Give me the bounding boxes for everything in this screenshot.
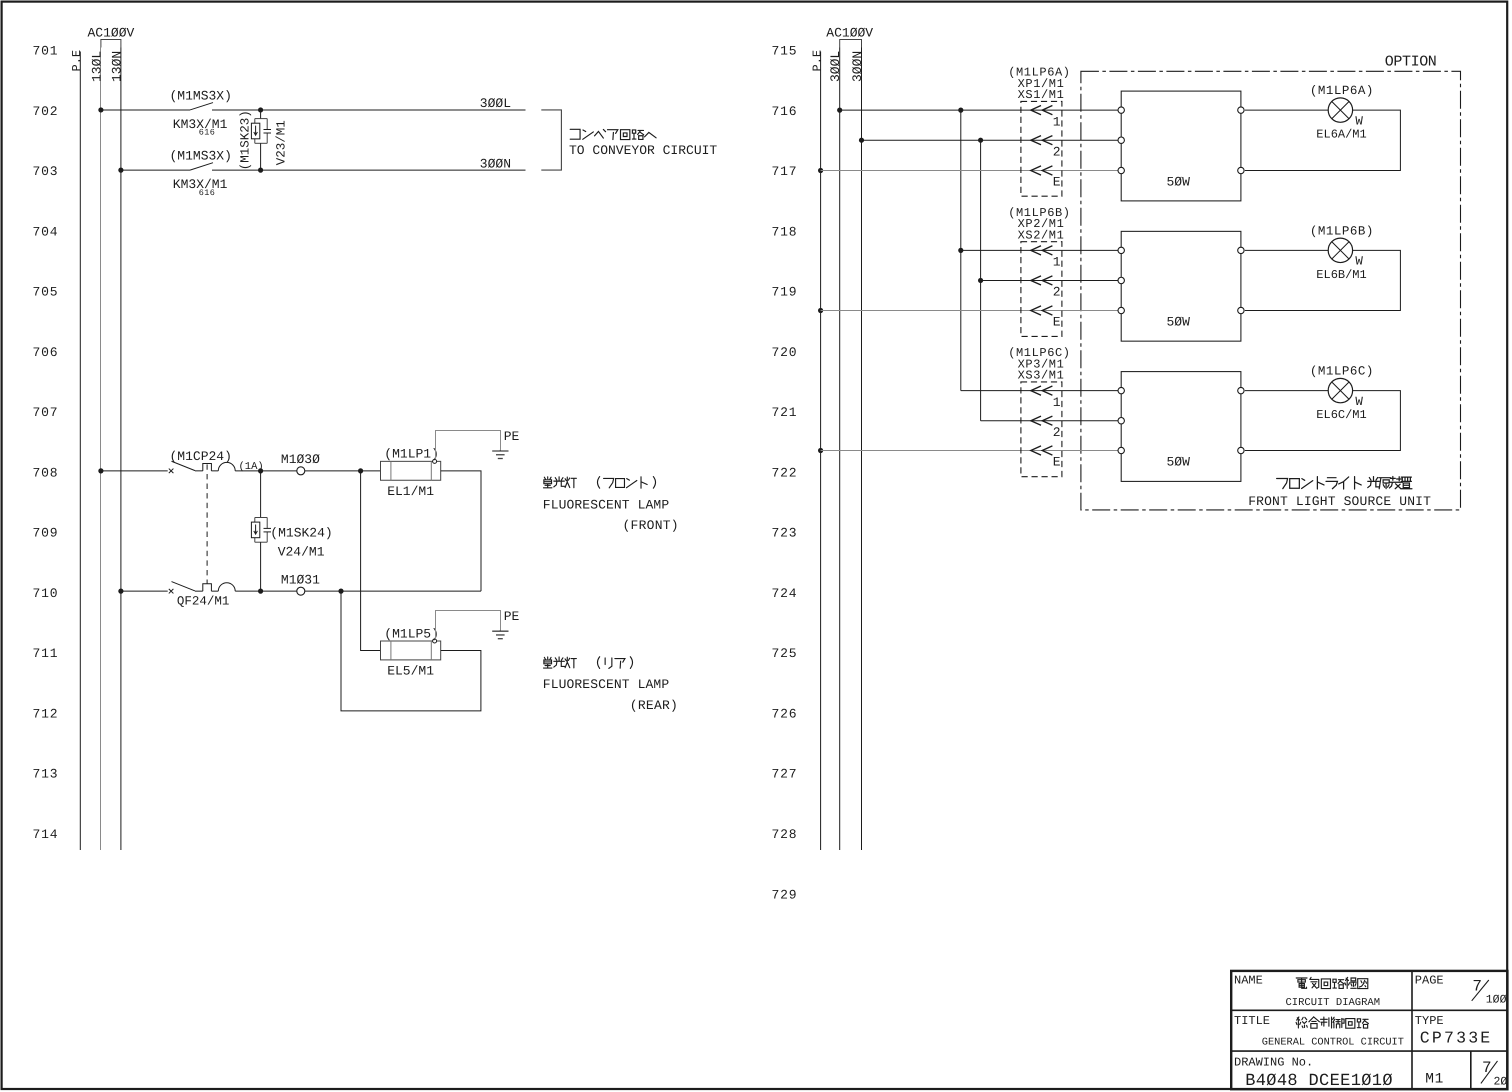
node P.E/AE (818, 168, 823, 173)
node 710/SK24 (258, 589, 263, 594)
svg-text:704: 704 (33, 224, 59, 239)
ballast unit B 50W (1121, 231, 1241, 341)
connector pin E unit B (1031, 306, 1041, 315)
svg-text:FLUORESCENT LAMP: FLUORESCENT LAMP (543, 497, 670, 512)
svg-text:QF24/M1: QF24/M1 (177, 595, 230, 609)
svg-text:OPTION: OPTION (1385, 54, 1437, 71)
svg-text:715: 715 (772, 44, 798, 59)
svg-text:(FRONT): (FRONT) (623, 518, 679, 533)
svg-text:XS3/M1: XS3/M1 (1018, 369, 1065, 383)
node 130L/702 (98, 107, 103, 112)
unit A right terminal E (1238, 167, 1244, 173)
bus bracket AC100V (R) (840, 40, 862, 48)
net 130N bus (120, 48, 122, 851)
svg-text:(REAR): (REAR) (630, 698, 678, 713)
wire unit C lineE (821, 450, 1122, 452)
lamp EL6B/M1 ((M1LP6B)) (1328, 238, 1352, 262)
unit A left terminal (1118, 167, 1124, 173)
svg-text:NAME: NAME (1234, 973, 1263, 987)
svg-text:(M1LP6B): (M1LP6B) (1310, 224, 1374, 238)
wire lamp B loop (1245, 250, 1401, 310)
net 300N bus (861, 48, 863, 851)
svg-text:720: 720 (772, 345, 798, 360)
wire unit C line2 (981, 420, 1122, 422)
svg-text:7: 7 (1482, 1059, 1492, 1077)
connector pin 1 unit B (1031, 246, 1041, 255)
svg-text:AC1ØØV: AC1ØØV (826, 26, 873, 41)
terminal M1031 (297, 587, 305, 595)
svg-text:726: 726 (772, 706, 798, 721)
svg-text:(M1MS3X): (M1MS3X) (170, 88, 232, 103)
label fluorescent rear JP (544, 657, 552, 668)
svg-text:(M1LP6C): (M1LP6C) (1310, 365, 1374, 379)
wire unit A lineE (821, 170, 1122, 172)
wire V1 branch (960, 110, 962, 391)
label title JP (1296, 1017, 1307, 1028)
wire 710 left (121, 590, 168, 592)
wire EL5 feed (361, 471, 381, 651)
svg-text:2: 2 (1053, 425, 1061, 440)
connector pin 1 unit C (1031, 386, 1041, 395)
svg-text:E: E (1053, 175, 1061, 190)
connector pin 2 unit C (1031, 416, 1041, 425)
svg-text:703: 703 (33, 164, 59, 179)
OPTION chain border (1081, 71, 1461, 510)
svg-text:(M1SK23): (M1SK23) (239, 110, 253, 170)
svg-text:GENERAL CONTROL CIRCUIT: GENERAL CONTROL CIRCUIT (1262, 1037, 1404, 1049)
svg-text:FLUORESCENT LAMP: FLUORESCENT LAMP (543, 677, 670, 692)
title block frame (1231, 971, 1507, 1089)
svg-text:716: 716 (772, 104, 798, 119)
svg-text:DRAWING No.: DRAWING No. (1234, 1056, 1313, 1070)
node 708/SK24 (258, 468, 263, 473)
svg-text:AC1ØØV: AC1ØØV (88, 26, 135, 41)
ground PE upper (499, 450, 501, 451)
svg-text:PE: PE (504, 609, 520, 624)
unit A right terminal 1 (1238, 107, 1244, 113)
title block h-divider 2 (1231, 1050, 1507, 1052)
title block v-divider (1411, 971, 1413, 1089)
node P.E/CE (818, 448, 823, 453)
svg-text:728: 728 (772, 827, 798, 842)
lamp EL1/M1 (M1LP1) (381, 461, 441, 480)
wire 703 left (121, 169, 190, 171)
breaker QF24/M1 pole2 (169, 589, 174, 594)
svg-text:724: 724 (772, 586, 798, 601)
connector pin E unit C (1031, 446, 1041, 455)
svg-text:EL6B/M1: EL6B/M1 (1316, 268, 1366, 282)
svg-text:E: E (1053, 315, 1061, 330)
svg-text:1: 1 (1053, 114, 1061, 129)
wire 702 right (212, 109, 526, 111)
svg-text:616: 616 (199, 188, 216, 198)
svg-text:701: 701 (33, 44, 59, 59)
node 300L/716 (837, 108, 842, 113)
wire EL1 PE lead (436, 431, 501, 460)
svg-text:727: 727 (772, 767, 798, 782)
svg-text:PAGE: PAGE (1415, 973, 1444, 987)
wire unit B to lamp (1245, 249, 1328, 251)
node 703/SK23 (258, 168, 263, 173)
svg-text:717: 717 (772, 164, 798, 179)
svg-text:5ØW: 5ØW (1167, 174, 1191, 189)
node 130N/703 (118, 168, 123, 173)
svg-text:5ØW: 5ØW (1167, 314, 1191, 329)
unit C right terminal 1 (1238, 387, 1244, 393)
svg-text:V24/M1: V24/M1 (278, 544, 325, 559)
wire unit B line1 (961, 249, 1121, 251)
svg-text:3ØØL: 3ØØL (828, 51, 843, 82)
svg-text:XS2/M1: XS2/M1 (1018, 228, 1065, 242)
unit B left terminal (1118, 277, 1124, 283)
branch bracket to conveyor (541, 110, 561, 170)
svg-text:710: 710 (33, 586, 59, 601)
node V2/A2 (978, 138, 983, 143)
svg-text:(M1MS3X): (M1MS3X) (170, 149, 232, 164)
terminal M1030 (297, 467, 305, 475)
svg-text:729: 729 (772, 887, 798, 902)
svg-text:(M1CP24): (M1CP24) (170, 449, 232, 464)
wire unit A to lamp (1245, 109, 1328, 111)
connector pin E unit A (1031, 166, 1041, 175)
svg-text:709: 709 (33, 526, 59, 541)
svg-text:719: 719 (772, 285, 798, 300)
svg-text:W: W (1355, 395, 1363, 409)
breaker QF24/M1 pole1 (M1CP24) (169, 469, 174, 474)
svg-text:P.E: P.E (70, 50, 84, 72)
svg-text:EL5/M1: EL5/M1 (387, 664, 434, 679)
label conveyor JP (570, 129, 580, 139)
svg-text:EL1/M1: EL1/M1 (387, 484, 434, 499)
svg-text:PE: PE (504, 429, 520, 444)
svg-text:(M1LP6A): (M1LP6A) (1310, 84, 1374, 98)
lamp EL6C/M1 ((M1LP6C)) (1328, 378, 1352, 402)
svg-text:TITLE: TITLE (1234, 1014, 1270, 1028)
svg-text:TO CONVEYOR CIRCUIT: TO CONVEYOR CIRCUIT (569, 143, 717, 158)
net P.E bus (R) (820, 52, 822, 851)
wire V2 branch (980, 140, 982, 421)
unit A left terminal (1118, 107, 1124, 113)
svg-text:FRONT LIGHT SOURCE UNIT: FRONT LIGHT SOURCE UNIT (1248, 494, 1431, 509)
svg-text:3ØØN: 3ØØN (480, 156, 511, 171)
svg-text:706: 706 (33, 345, 59, 360)
node 130N/710 (118, 589, 123, 594)
node 708/EL5 branch (358, 468, 363, 473)
node 710/EL5 return (338, 589, 343, 594)
svg-text:TYPE: TYPE (1415, 1014, 1444, 1028)
connector pin 2 unit A (1031, 136, 1041, 145)
svg-text:721: 721 (772, 405, 798, 420)
svg-text:718: 718 (772, 224, 798, 239)
svg-text:CP733E: CP733E (1420, 1029, 1493, 1048)
svg-text:712: 712 (33, 706, 59, 721)
contact KM3X/M1 (M1MS3X) lower (190, 163, 213, 170)
bus bracket AC100V (L) (101, 40, 121, 48)
connector XP3/M1/XS3/M1 ((M1LP6C)) (1021, 382, 1062, 477)
wire unit C to lamp (1245, 390, 1328, 392)
wire 702 left (101, 109, 190, 111)
svg-text:B4Ø48 DCEE1Ø1Ø: B4Ø48 DCEE1Ø1Ø (1245, 1072, 1393, 1091)
ballast unit A 50W (1121, 91, 1241, 201)
label fluorescent front JP (544, 477, 552, 488)
unit C right terminal E (1238, 447, 1244, 453)
unit B left terminal (1118, 307, 1124, 313)
wire 708 mid (235, 470, 297, 472)
sheet slash (1481, 1061, 1498, 1084)
lamp EL5/M1 (M1LP5) (381, 641, 441, 660)
wire EL1 out loop (441, 471, 481, 591)
svg-text:XS1/M1: XS1/M1 (1018, 88, 1065, 102)
svg-text:708: 708 (33, 465, 59, 480)
svg-text:(M1SK24): (M1SK24) (270, 525, 332, 540)
node V1/716 (958, 108, 963, 113)
net P.E bus (L) (79, 52, 81, 851)
svg-text:M1: M1 (1425, 1071, 1444, 1087)
svg-text:705: 705 (33, 285, 59, 300)
unit C left terminal (1118, 387, 1124, 393)
svg-text:CIRCUIT DIAGRAM: CIRCUIT DIAGRAM (1286, 997, 1381, 1009)
label front light source unit JP (1277, 478, 1288, 488)
unit B right terminal E (1238, 307, 1244, 313)
svg-text:5ØW: 5ØW (1167, 454, 1191, 469)
breaker link dashed (206, 464, 208, 583)
lamp EL6A/M1 ((M1LP6A)) (1328, 98, 1352, 122)
svg-text:722: 722 (772, 465, 798, 480)
svg-text:(M1LP1): (M1LP1) (384, 447, 439, 462)
svg-text:1: 1 (1053, 395, 1061, 410)
wire 703 right (212, 169, 526, 171)
contact KM3X/M1 (M1MS3X) upper (190, 103, 213, 110)
svg-text:1ØØ: 1ØØ (1486, 994, 1507, 1007)
wire unit B line2 (981, 279, 1122, 281)
wire unit B lineE (821, 310, 1122, 312)
svg-text:V23/M1: V23/M1 (274, 120, 288, 165)
label name JP (1296, 978, 1307, 988)
node V1/B1 (958, 248, 963, 253)
ground PE lower (499, 630, 501, 631)
node 300N/A2 (859, 138, 864, 143)
svg-text:7: 7 (1472, 977, 1482, 995)
wire lamp A loop (1245, 110, 1401, 170)
connector XP2/M1/XS2/M1 ((M1LP6B)) (1021, 242, 1062, 337)
connector pin 1 unit A (1031, 106, 1041, 115)
wire lamp C loop (1245, 391, 1401, 451)
svg-text:3ØØN: 3ØØN (850, 51, 865, 82)
surge killer M1SK23 (260, 110, 262, 119)
svg-text:3ØØL: 3ØØL (480, 96, 511, 111)
surge killer M1SK24 (260, 471, 262, 518)
svg-text:711: 711 (33, 646, 59, 661)
svg-text:W: W (1355, 114, 1363, 128)
svg-text:713: 713 (33, 767, 59, 782)
node 130L/708 (98, 468, 103, 473)
title block h-divider 1 (1231, 1009, 1507, 1011)
svg-text:2Ø: 2Ø (1493, 1075, 1507, 1088)
svg-text:707: 707 (33, 405, 59, 420)
unit C left terminal (1118, 447, 1124, 453)
svg-text:723: 723 (772, 526, 798, 541)
svg-text:E: E (1053, 455, 1061, 470)
page slash (1472, 980, 1489, 1001)
svg-text:725: 725 (772, 646, 798, 661)
svg-text:2: 2 (1053, 285, 1061, 300)
wire 708 right (305, 470, 381, 472)
wire 708 left (101, 470, 168, 472)
svg-text:13ØL: 13ØL (89, 51, 104, 82)
svg-text:714: 714 (33, 827, 59, 842)
node P.E/BE (818, 308, 823, 313)
wire 710 right (235, 590, 481, 592)
node 702/SK23 (258, 107, 263, 112)
wire unit A line1 (840, 109, 1121, 111)
svg-text:(M1LP5): (M1LP5) (384, 626, 439, 641)
node V2/B2 (978, 278, 983, 283)
wire EL5 out loop (341, 591, 481, 711)
wire unit C line1 (961, 390, 1121, 392)
svg-text:EL6C/M1: EL6C/M1 (1316, 408, 1366, 422)
net 300L bus (839, 48, 841, 851)
svg-text:2: 2 (1053, 144, 1061, 159)
unit C left terminal (1118, 418, 1124, 424)
net 130L bus (100, 48, 102, 851)
unit B left terminal (1118, 247, 1124, 253)
svg-text:702: 702 (33, 104, 59, 119)
unit A left terminal (1118, 137, 1124, 143)
wire unit A line2 (862, 139, 1122, 141)
unit B right terminal 1 (1238, 247, 1244, 253)
svg-text:616: 616 (199, 128, 216, 138)
title block v-divider row3 (1470, 1051, 1472, 1089)
svg-text:P.E: P.E (810, 50, 824, 72)
ballast unit C 50W (1121, 372, 1241, 482)
svg-text:M1Ø31: M1Ø31 (281, 572, 320, 587)
connector pin 2 unit B (1031, 276, 1041, 285)
svg-text:M1Ø3Ø: M1Ø3Ø (281, 452, 320, 467)
wire EL5 PE lead (436, 611, 501, 640)
svg-text:EL6A/M1: EL6A/M1 (1316, 128, 1366, 142)
svg-text:1: 1 (1053, 255, 1061, 270)
connector XP1/M1/XS1/M1 ((M1LP6A)) (1021, 101, 1062, 196)
svg-text:W: W (1355, 255, 1363, 269)
svg-text:13ØN: 13ØN (109, 51, 124, 82)
